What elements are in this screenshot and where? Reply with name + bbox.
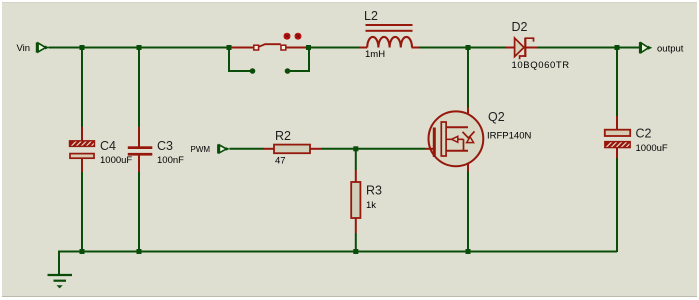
switch SW contact left xyxy=(254,45,259,50)
diode D2 pin right xyxy=(526,47,537,49)
switch pin node right xyxy=(285,68,291,74)
inductor L2 core bars xyxy=(366,24,413,32)
junction node R3 bottom xyxy=(353,249,358,254)
switch SW lever xyxy=(259,44,281,47)
transistor Q2 channel plate xyxy=(441,122,446,156)
switch SW pin right (red) xyxy=(286,47,306,49)
wire bottom rail xyxy=(59,251,617,253)
transistor Q2 drain pin xyxy=(467,108,469,172)
junction node at C3 top xyxy=(137,45,142,50)
wire PWM to R2 xyxy=(230,148,265,150)
junction node R3 top xyxy=(353,146,358,151)
svg-text:Q2: Q2 xyxy=(488,110,505,124)
capacitor C4 pin top xyxy=(81,127,83,142)
transistor Q2 source tap xyxy=(446,150,468,152)
wire top from Vin xyxy=(49,47,232,49)
capacitor C4 xyxy=(70,141,95,158)
switch pin node left xyxy=(250,68,256,74)
wire R3 bottom stub xyxy=(355,233,357,252)
wire switch right pin stub xyxy=(288,48,310,72)
wire R3 top stub xyxy=(355,149,357,170)
junction node D2/C2 xyxy=(615,45,620,50)
wire ground stem xyxy=(58,251,60,275)
terminal PWM label xyxy=(191,145,211,154)
wire C3 branch lower xyxy=(138,172,140,252)
switch SW toggle dot right xyxy=(295,33,302,40)
inductor L2 value label xyxy=(365,49,385,60)
wire top between D2 and output xyxy=(537,47,640,49)
diode D2 value label xyxy=(512,60,570,71)
svg-text:1k: 1k xyxy=(366,200,376,211)
wire Q2 source branch xyxy=(467,172,469,253)
svg-text:PWM: PWM xyxy=(191,145,211,154)
capacitor C4 ref label xyxy=(100,139,116,153)
transistor Q2 drain tap xyxy=(446,126,468,128)
capacitor C3 ref label xyxy=(157,139,173,153)
svg-text:47: 47 xyxy=(275,156,286,167)
svg-text:L2: L2 xyxy=(364,9,378,23)
capacitor C3 pin top xyxy=(138,127,140,147)
svg-text:C3: C3 xyxy=(157,139,173,153)
svg-text:R2: R2 xyxy=(275,129,291,143)
junction node Q2 source bottom xyxy=(466,249,471,254)
svg-text:D2: D2 xyxy=(512,20,528,34)
diode D2 ref label xyxy=(512,20,528,34)
wire top between L2 and D2 xyxy=(419,47,506,49)
capacitor C4 pin bottom xyxy=(81,158,83,173)
resistor R2 pin left xyxy=(264,148,274,150)
svg-text:10BQ060TR: 10BQ060TR xyxy=(512,60,570,71)
capacitor C2 pin bottom xyxy=(616,148,618,159)
transistor Q2 gate pin xyxy=(425,148,434,150)
wire top between switch and L2 xyxy=(305,47,360,49)
wire Q2 drain branch xyxy=(467,48,469,108)
transistor Q2 body circle xyxy=(429,111,484,166)
capacitor C2 value label xyxy=(636,143,668,154)
resistor R2 ref label xyxy=(275,129,291,143)
svg-text:1000uF: 1000uF xyxy=(100,155,132,166)
resistor R2 pin right xyxy=(310,148,321,150)
wire C2 branch upper xyxy=(616,48,618,117)
terminal PWM xyxy=(218,144,230,153)
wire R2 to Q2 gate xyxy=(321,148,425,150)
capacitor C4 value label xyxy=(100,155,132,166)
terminal Vin xyxy=(37,42,49,52)
junction node C4 bottom xyxy=(80,249,85,254)
capacitor C2 pin top xyxy=(616,116,618,130)
resistor R3 pin top xyxy=(355,170,357,183)
resistor R3 value label xyxy=(366,200,376,211)
wire switch left pin stub xyxy=(229,48,253,72)
junction node C3 bottom xyxy=(137,249,142,254)
svg-text:C4: C4 xyxy=(100,139,116,153)
resistor R2 xyxy=(274,145,310,154)
junction node switch right xyxy=(306,45,311,50)
capacitor C3 pin bottom xyxy=(138,155,140,172)
svg-text:100nF: 100nF xyxy=(157,155,184,166)
svg-text:R3: R3 xyxy=(366,184,382,198)
wire C4 branch lower xyxy=(81,172,83,252)
capacitor C2 ref label xyxy=(636,126,652,140)
resistor R3 pin bottom xyxy=(355,218,357,234)
wire C4 branch upper xyxy=(81,48,83,128)
inductor L2 pin right xyxy=(412,47,419,49)
transistor Q2 value label xyxy=(487,130,531,141)
svg-text:Vin: Vin xyxy=(17,43,31,54)
junction node Q2 drain xyxy=(466,45,471,50)
inductor L2 pin left xyxy=(360,47,368,49)
diode D2 pin left xyxy=(506,47,515,49)
transistor Q2 body diode xyxy=(463,131,475,142)
resistor R2 value label xyxy=(275,156,286,167)
capacitor C2 xyxy=(605,130,630,148)
svg-text:1000uF: 1000uF xyxy=(636,143,668,154)
resistor R3 ref label xyxy=(366,184,382,198)
terminal output xyxy=(640,42,652,53)
svg-text:C2: C2 xyxy=(636,126,652,140)
terminal output label xyxy=(657,44,684,55)
switch SW pin left (red) xyxy=(231,47,254,49)
svg-text:1mH: 1mH xyxy=(365,49,385,60)
junction node switch left xyxy=(227,45,232,50)
wire C2 branch lower xyxy=(616,158,618,252)
transistor Q2 gate bar xyxy=(433,128,436,158)
ground xyxy=(48,275,73,288)
junction node at Vin/C4 xyxy=(80,45,85,50)
inductor L2 coil xyxy=(367,37,412,48)
switch SW toggle dot left xyxy=(284,33,291,40)
svg-text:IRFP140N: IRFP140N xyxy=(487,130,531,141)
capacitor C3 value label xyxy=(157,155,184,166)
diode D2 xyxy=(515,38,534,60)
transistor Q2 ref label xyxy=(488,110,505,124)
resistor R3 xyxy=(351,182,360,218)
capacitor C3 xyxy=(128,146,153,155)
switch SW contact right xyxy=(281,45,286,50)
terminal Vin label xyxy=(17,43,31,54)
svg-text:output: output xyxy=(657,44,684,55)
wire C3 branch upper xyxy=(138,48,140,128)
inductor L2 ref label xyxy=(364,9,378,23)
transistor Q2 substrate arrow xyxy=(446,136,464,151)
